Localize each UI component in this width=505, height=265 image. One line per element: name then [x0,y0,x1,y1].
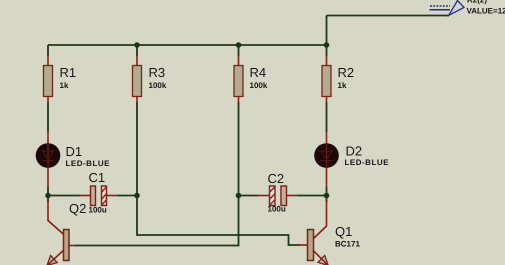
wire node B to Q1 base [137,196,300,246]
svg-text:D1: D1 [66,144,83,159]
junction node D (R2/D2/Q1 collector) [324,193,330,199]
wire D1 to node A [47,187,49,202]
wire D2 to node D [326,187,328,202]
transistor Q2 [47,199,76,265]
resistor R2 [322,56,331,103]
wire node A to C1 [48,195,80,197]
wire R3 to node B [136,102,138,196]
svg-text:BC171: BC171 [335,240,360,249]
svg-text:LED-BLUE: LED-BLUE [66,159,111,168]
wire R2 top stub [326,45,328,57]
wire C2 to node D [298,195,327,197]
wire power feed horizontal [327,15,450,17]
resistor R3 [133,56,142,103]
wire R3 top stub [136,45,138,57]
svg-text:C1: C1 [89,170,106,185]
wire R4 to node C [238,102,240,196]
svg-text:R2(2): R2(2) [467,0,487,5]
svg-text:Q2: Q2 [69,201,86,216]
wire C1 to node B [118,195,138,197]
resistor R4 [234,56,243,103]
wire top supply bus [48,44,327,46]
svg-text:VALUE=12: VALUE=12 [467,7,505,16]
svg-text:R2: R2 [338,65,355,80]
svg-text:LED-BLUE: LED-BLUE [345,158,390,167]
transistor Q1 [300,199,328,265]
svg-text:Q1: Q1 [335,224,352,239]
svg-text:100k: 100k [149,81,167,90]
capacitor C2 [258,186,299,206]
junction node on bus at R4 [236,42,242,48]
svg-text:R1: R1 [60,65,77,80]
svg-text:R4: R4 [250,65,267,80]
capacitor C1 [79,186,118,206]
battery B1 DC source symbol [430,1,465,16]
svg-text:C2: C2 [268,171,285,186]
wire node C to C2 [239,195,259,197]
wire R1 top drop [47,45,49,57]
junction node on bus at R2 [324,42,330,48]
svg-text:R3: R3 [149,65,166,80]
svg-text:D2: D2 [346,144,363,159]
LED D1 [36,132,61,188]
junction node C (R4/C2/Q2 base) [236,193,242,199]
svg-text:100k: 100k [250,81,268,90]
svg-text:100u: 100u [89,206,107,215]
svg-text:1k: 1k [338,81,347,90]
svg-text:1k: 1k [60,81,69,90]
wire vertical to power feed [326,16,328,46]
wire R2 to D2 [326,102,328,132]
junction node A (D1/C1/Q2 collector) [45,193,51,199]
wire R4 top stub [238,45,240,57]
resistor R1 [44,56,53,103]
junction node B (R3/C1/Q1 base) [134,193,140,199]
svg-text:100u: 100u [268,205,286,214]
wire R1 to D1 [47,102,49,132]
junction node on bus at R3 [134,42,140,48]
wire node C to Q2 base [75,196,239,246]
LED D2 [314,132,339,188]
